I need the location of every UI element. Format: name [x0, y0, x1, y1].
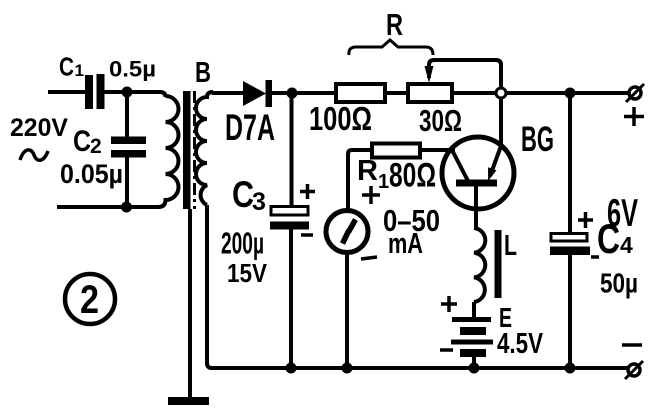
svg-text:R: R	[357, 155, 378, 187]
svg-text:C: C	[59, 52, 74, 82]
transformer core solid bar	[183, 91, 191, 209]
svg-text:2: 2	[80, 278, 99, 322]
svg-text:C: C	[597, 215, 620, 262]
svg-text:100Ω: 100Ω	[309, 100, 372, 137]
node C (rectifier output)	[287, 88, 298, 99]
wire R1 to meter corner	[348, 150, 372, 210]
svg-text:C: C	[232, 174, 254, 215]
plus sign C4	[578, 212, 593, 228]
plus sign meter	[362, 186, 380, 204]
plus sign battery	[441, 296, 457, 312]
wire meter to bottom rail	[345, 252, 349, 369]
battery E 4.5V	[451, 320, 493, 354]
svg-text:80Ω: 80Ω	[389, 157, 436, 195]
resistor R1 80 ohm	[372, 144, 420, 158]
wire diode to node	[272, 91, 336, 95]
label C3	[232, 174, 266, 216]
terminal + output	[626, 84, 644, 102]
svg-text:B: B	[195, 57, 211, 89]
svg-text:0.5µ: 0.5µ	[109, 57, 156, 82]
node B (C2/primary bottom junction)	[121, 202, 132, 213]
wire collector node to transistor	[499, 98, 503, 146]
node H (battery on bottom rail)	[469, 363, 480, 374]
plus sign C3	[300, 184, 315, 199]
wire ground lead from core	[188, 209, 192, 398]
wire secondary top to diode	[212, 91, 243, 95]
transformer primary winding	[158, 96, 179, 207]
svg-text:3: 3	[252, 188, 266, 216]
svg-text:4: 4	[620, 232, 633, 258]
transformer core dashed line	[193, 91, 196, 209]
svg-text:200µ: 200µ	[221, 226, 264, 261]
wire C2 to bottom node	[125, 156, 129, 207]
transistor BG	[442, 137, 514, 224]
svg-text:mA: mA	[388, 228, 423, 260]
minus sign C3	[301, 233, 313, 237]
capacitor C1	[85, 74, 105, 109]
wire top-left AC lead	[48, 90, 86, 94]
node D (C3 on bottom rail)	[286, 363, 297, 374]
meter 0-50mA	[326, 211, 368, 253]
wire between resistors	[385, 91, 408, 95]
minus sign C4	[591, 255, 599, 259]
wire 30ohm to collector node	[452, 91, 566, 95]
brace over R network	[349, 40, 433, 55]
plus sign output	[624, 107, 644, 126]
wire secondary bottom to rail corner	[207, 205, 212, 368]
wire node down to C3	[290, 93, 294, 207]
node F (C4 branch)	[565, 88, 576, 99]
minus sign meter	[361, 257, 377, 259]
wire node to primary coil top	[127, 92, 166, 97]
label R1	[357, 155, 389, 193]
inductor L	[474, 228, 485, 302]
minus sign output	[622, 343, 642, 347]
svg-text:30Ω: 30Ω	[419, 103, 462, 138]
wire C4 branch top	[568, 93, 572, 233]
capacitor C2	[111, 137, 146, 158]
wire C1 to node	[105, 90, 128, 94]
wire node to C2	[125, 92, 129, 138]
wire R1 to transistor base	[420, 148, 455, 152]
svg-text:15V: 15V	[227, 258, 268, 288]
node I (C4 on bottom rail)	[565, 363, 576, 374]
minus sign battery	[440, 348, 453, 352]
resistor 100 ohm	[336, 84, 385, 102]
svg-text:L: L	[504, 230, 517, 262]
node G (meter on bottom rail)	[342, 363, 353, 374]
svg-text:R: R	[386, 7, 403, 42]
wire C4 to bottom rail	[568, 255, 572, 368]
svg-text:BG: BG	[521, 120, 554, 159]
ground	[168, 397, 209, 405]
svg-text:C: C	[73, 125, 91, 158]
wire node to + terminal	[570, 91, 629, 95]
wire bottom rail	[210, 366, 630, 370]
AC tilde symbol	[20, 150, 48, 160]
figure number 2	[65, 274, 115, 324]
node A (C1/C2/primary junction)	[122, 87, 133, 98]
label C1	[59, 52, 84, 82]
wire C3 to bottom rail	[289, 229, 293, 368]
svg-text:4.5V: 4.5V	[497, 328, 543, 360]
svg-text:1: 1	[378, 171, 389, 193]
svg-text:0.05µ: 0.05µ	[60, 159, 123, 189]
diode D7A	[243, 80, 272, 107]
capacitor C3	[270, 207, 309, 230]
svg-text:D7A: D7A	[225, 107, 275, 148]
wire battery to bottom rail	[472, 357, 476, 368]
svg-text:1: 1	[75, 61, 84, 80]
svg-text:50µ: 50µ	[600, 268, 638, 299]
wire inductor to battery	[472, 302, 476, 318]
capacitor C4	[550, 234, 590, 256]
label C2	[73, 125, 102, 158]
resistor 30 ohm (rheostat)	[408, 84, 452, 102]
svg-text:2: 2	[90, 135, 102, 158]
terminal - output	[625, 361, 643, 379]
svg-text:220V: 220V	[10, 114, 68, 142]
rheostat wiper arrow	[425, 60, 502, 88]
transformer secondary winding	[196, 92, 213, 205]
label C4	[597, 215, 633, 262]
inductor core bar	[495, 230, 502, 298]
wire emitter to inductor	[474, 222, 478, 229]
node E (collector/wiper, open circle)	[496, 88, 506, 98]
wire bottom-left AC lead	[57, 205, 158, 209]
